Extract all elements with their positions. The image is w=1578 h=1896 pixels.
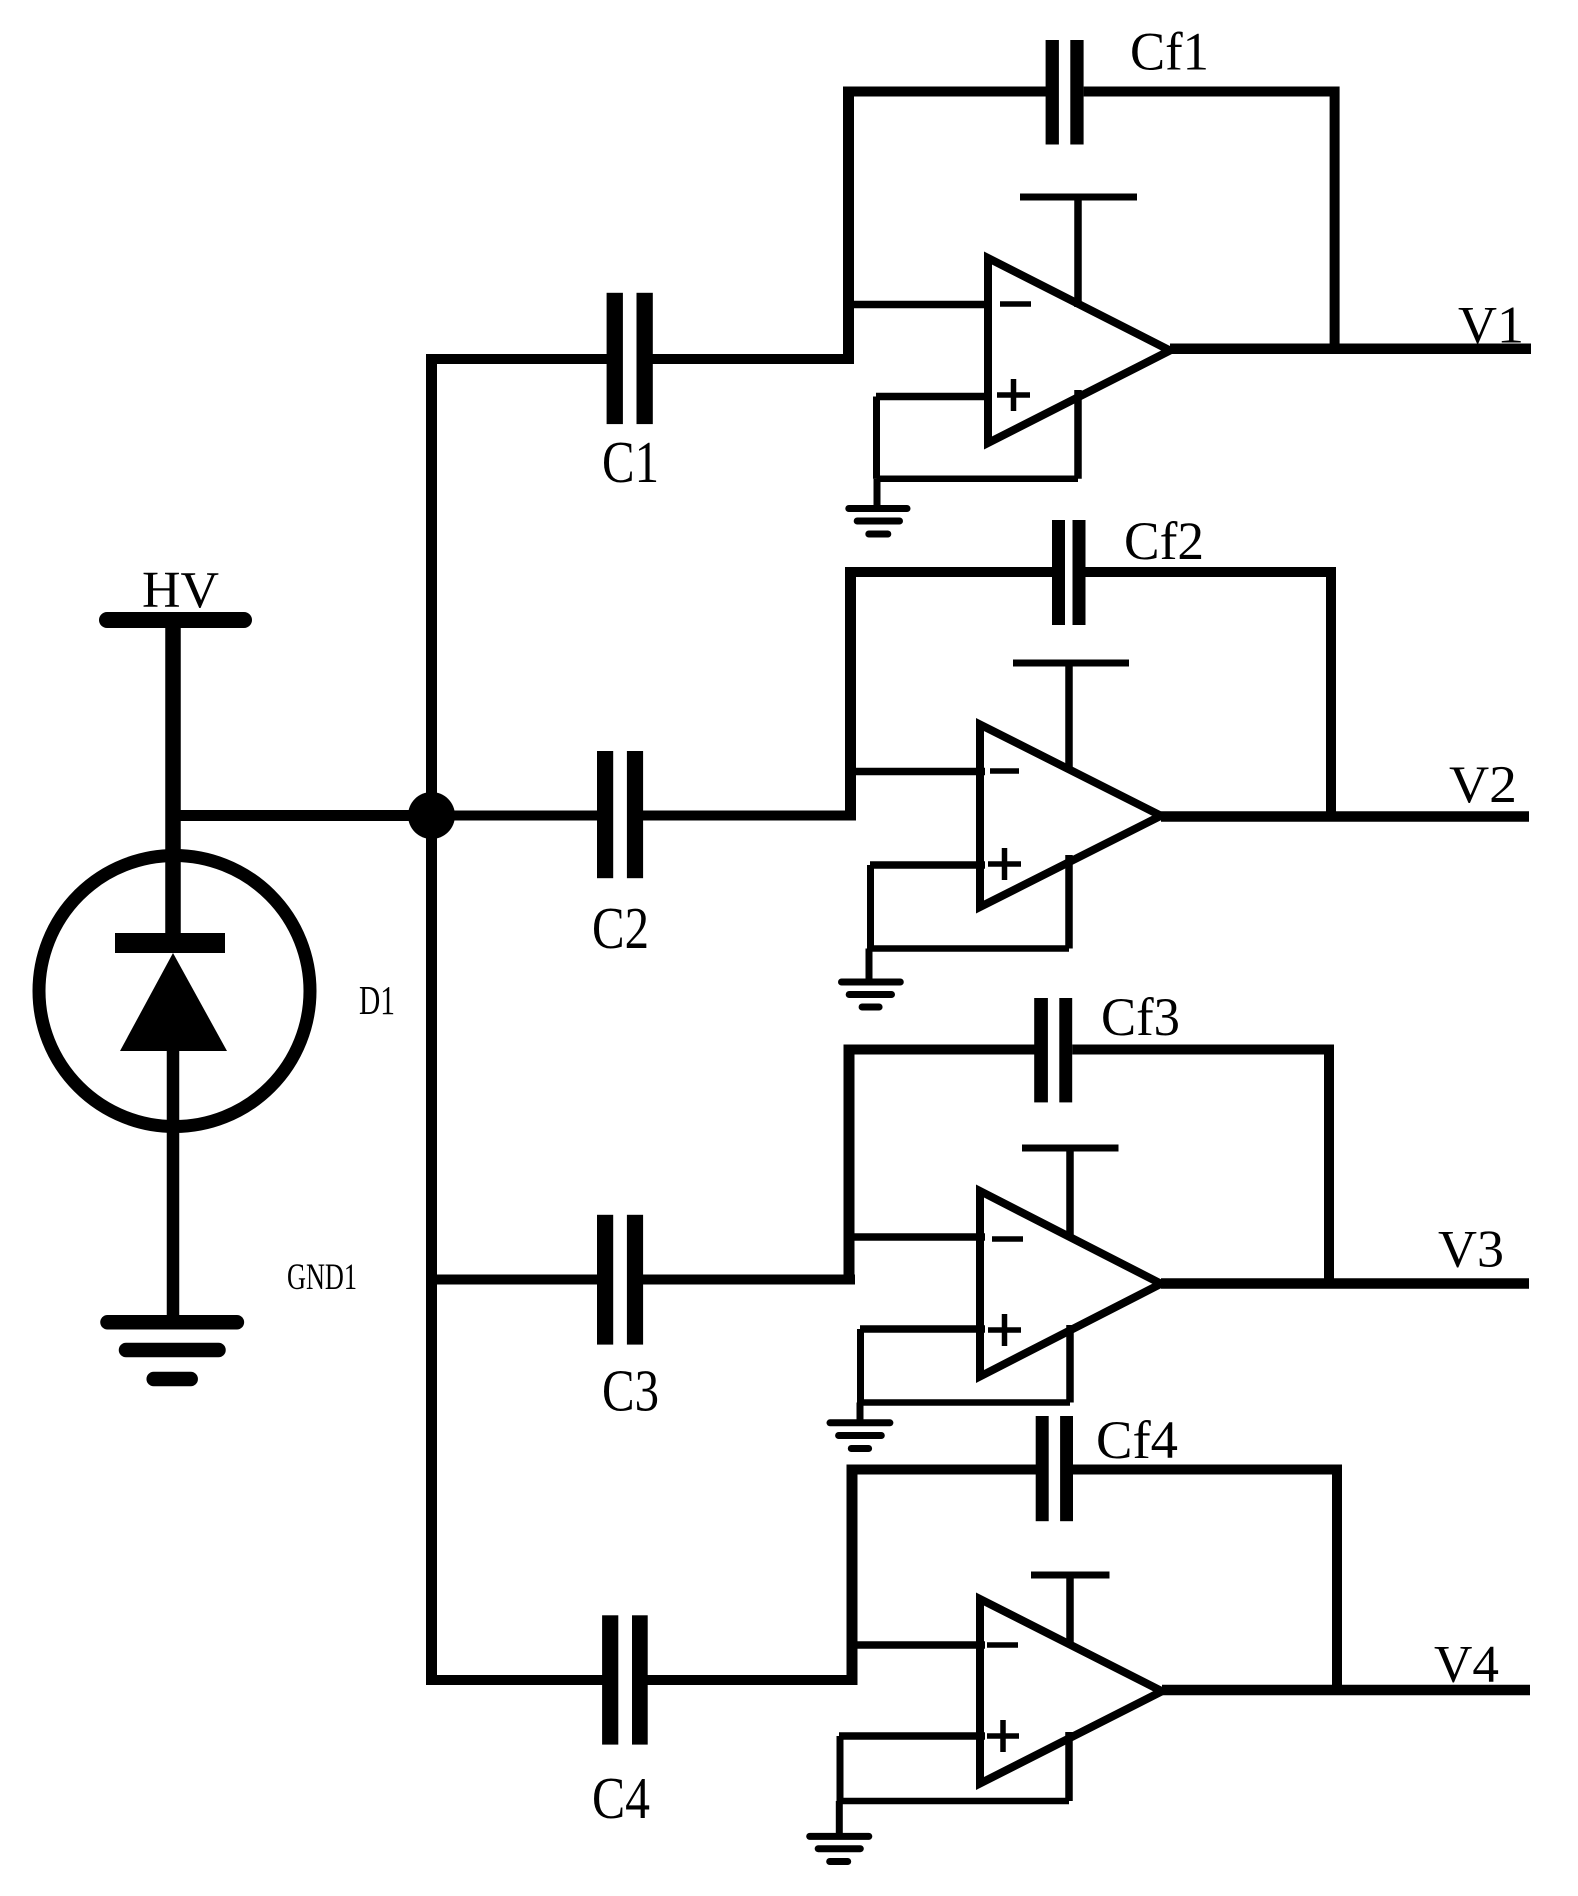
wire stage4 feedback right vertical bbox=[1332, 1465, 1342, 1692]
wire stage4 summing vertical bbox=[847, 1465, 858, 1686]
svg-text:HV: HV bbox=[142, 562, 219, 619]
wire stage2 feedback right vertical bbox=[1326, 567, 1336, 817]
svg-text:GND1: GND1 bbox=[287, 1257, 357, 1298]
svg-text:C4: C4 bbox=[592, 1765, 650, 1831]
wire U2 ground stub bbox=[866, 949, 873, 983]
wire U1 inverting input bbox=[843, 301, 992, 309]
wire Cf1 feedback top left bbox=[843, 87, 1046, 97]
wire stage3 summing vertical bbox=[844, 1045, 855, 1285]
op-amp U2 V+ pin stub bbox=[1065, 663, 1073, 772]
wire C1 to U1 summing node bbox=[652, 354, 854, 364]
svg-text:C1: C1 bbox=[602, 429, 659, 495]
capacitor Cf1 bbox=[1046, 40, 1084, 145]
op-amp U2 V- pin stub bbox=[1065, 855, 1073, 949]
svg-text:C3: C3 bbox=[602, 1358, 659, 1424]
wire U3 ground stub bbox=[857, 1403, 864, 1423]
op-amp U2 triangle bbox=[980, 725, 1161, 908]
op-amp U3 plus symbol bbox=[988, 1314, 1021, 1346]
svg-text:V3: V3 bbox=[1438, 1221, 1504, 1279]
op-amp U2 minus symbol bbox=[990, 768, 1019, 774]
svg-text:C2: C2 bbox=[592, 895, 649, 961]
wire U4 inverting input bbox=[847, 1641, 985, 1649]
wire V2 output bbox=[1161, 811, 1529, 822]
wire C3 branch left segment bbox=[427, 1275, 598, 1285]
wire U1 ground stub bbox=[874, 479, 881, 509]
wire stage3 feedback right vertical bbox=[1324, 1045, 1334, 1284]
op-amp U3 V+ pin stub bbox=[1066, 1148, 1074, 1237]
wire U1 ground bottom horizontal bbox=[877, 475, 1079, 482]
capacitor C3 bbox=[597, 1215, 643, 1345]
capacitor C1 bbox=[607, 293, 653, 424]
wire Cf2 feedback top left bbox=[845, 567, 1053, 577]
op-amp U4 V- pin stub bbox=[1065, 1732, 1073, 1801]
wire stage2 summing vertical bbox=[845, 567, 856, 821]
op-amp U4 plus symbol bbox=[987, 1720, 1019, 1752]
wire U4 ground stub bbox=[836, 1801, 843, 1836]
wire diode anode to GND1 bbox=[167, 1045, 180, 1322]
op-amp U2 plus symbol bbox=[988, 848, 1021, 880]
wire Cf3 feedback top left bbox=[844, 1045, 1035, 1055]
op-amp U1 minus symbol bbox=[1000, 301, 1031, 307]
photodiode D1 circle bbox=[39, 856, 310, 1127]
svg-text:D1: D1 bbox=[359, 977, 395, 1023]
svg-text:V2: V2 bbox=[1449, 756, 1517, 814]
junction node dot bbox=[408, 792, 455, 839]
capacitor Cf4 bbox=[1036, 1416, 1073, 1521]
op-amp U1 triangle bbox=[988, 258, 1170, 443]
svg-text:V1: V1 bbox=[1458, 297, 1524, 355]
wire U4 non-inverting input bbox=[839, 1732, 985, 1740]
wire V3 output bbox=[1161, 1278, 1529, 1289]
wire Cf4 feedback top left bbox=[847, 1465, 1037, 1475]
wire Cf4 feedback top right bbox=[1073, 1465, 1342, 1475]
svg-text:V4: V4 bbox=[1434, 1636, 1499, 1694]
wire U3 inverting input bbox=[844, 1233, 985, 1241]
op-amp U3 triangle bbox=[980, 1191, 1161, 1377]
op-amp U1 V+ supply bar bbox=[1020, 194, 1137, 201]
wire U2 ground bottom horizontal bbox=[871, 945, 1070, 952]
op-amp U4 triangle bbox=[980, 1599, 1162, 1784]
op-amp U2 V+ supply bar bbox=[1013, 660, 1129, 667]
wire U4 plus-input left vertical bbox=[837, 1736, 844, 1801]
wire C4 to U4 summing node bbox=[647, 1675, 857, 1685]
wire C2 to U2 summing node bbox=[642, 811, 856, 821]
wire U3 plus-input left vertical bbox=[857, 1329, 864, 1403]
wire U2 inverting input bbox=[845, 768, 985, 776]
ground U3 symbol bbox=[830, 1423, 890, 1449]
svg-text:Cf4: Cf4 bbox=[1096, 1410, 1178, 1470]
wire U1 non-inverting input bbox=[876, 393, 992, 401]
wire node horizontal from HV/diode branch to junction bbox=[173, 810, 431, 821]
wire C4 branch left segment bbox=[427, 1675, 603, 1685]
ground U4 symbol bbox=[810, 1836, 869, 1861]
wire Cf1 feedback top right bbox=[1084, 87, 1339, 97]
op-amp U1 V- pin stub bbox=[1074, 390, 1082, 479]
capacitor Cf2 bbox=[1052, 520, 1086, 625]
ground U2 symbol bbox=[842, 982, 901, 1007]
wire stage1 feedback right vertical bbox=[1330, 87, 1340, 349]
photodiode D1 cathode bar bbox=[115, 933, 225, 953]
wire stage1 summing vertical bbox=[843, 87, 854, 365]
ground GND1 symbol bbox=[108, 1322, 237, 1379]
op-amp U4 V+ supply bar bbox=[1031, 1572, 1110, 1579]
capacitor Cf3 bbox=[1034, 998, 1072, 1102]
wire U2 plus-input left vertical bbox=[867, 865, 874, 949]
wire V1 output bbox=[1170, 343, 1531, 354]
wire C2 branch left segment bbox=[431, 811, 598, 821]
power rail HV bar bbox=[107, 612, 244, 628]
op-amp U3 minus symbol bbox=[992, 1236, 1023, 1242]
op-amp U3 V- pin stub bbox=[1066, 1325, 1074, 1403]
wire V4 output bbox=[1162, 1685, 1530, 1696]
op-amp U4 V+ pin stub bbox=[1066, 1575, 1074, 1645]
op-amp U1 plus symbol bbox=[997, 379, 1030, 411]
svg-text:Cf2: Cf2 bbox=[1124, 511, 1204, 571]
capacitor C4 bbox=[602, 1615, 648, 1744]
svg-text:Cf1: Cf1 bbox=[1130, 22, 1209, 82]
wire C3 to U3 summing node bbox=[642, 1275, 855, 1285]
op-amp U1 V+ pin stub bbox=[1074, 197, 1082, 307]
wire U4 ground bottom horizontal bbox=[840, 1798, 1069, 1805]
wire U3 non-inverting input bbox=[860, 1325, 985, 1333]
ground U1 symbol bbox=[849, 509, 907, 535]
wire U2 non-inverting input bbox=[870, 861, 985, 869]
op-amp U3 V+ supply bar bbox=[1022, 1145, 1119, 1152]
wire C1 branch left segment bbox=[426, 354, 608, 364]
wire Cf3 feedback top right bbox=[1072, 1045, 1334, 1055]
svg-text:Cf3: Cf3 bbox=[1101, 987, 1180, 1047]
capacitor C2 bbox=[597, 751, 643, 878]
wire U3 ground bottom horizontal bbox=[861, 1399, 1071, 1406]
wire Cf2 feedback top right bbox=[1086, 567, 1337, 577]
wire U1 plus-input left vertical bbox=[873, 397, 880, 479]
wire HV rail down to photodiode cathode bbox=[165, 620, 181, 941]
op-amp U4 minus symbol bbox=[987, 1642, 1018, 1648]
wire main vertical bus bbox=[426, 354, 437, 1685]
photodiode D1 anode triangle bbox=[120, 953, 227, 1051]
